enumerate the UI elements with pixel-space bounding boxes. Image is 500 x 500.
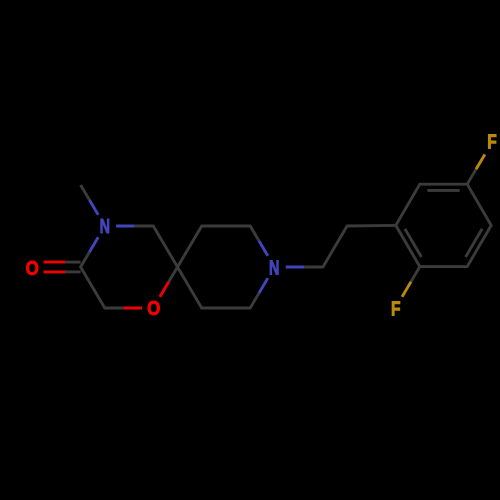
ring bond C5-spiro	[153, 226, 177, 267]
CH2-phenyl bond	[347, 224, 396, 228]
ring bond O1-C2	[105, 307, 142, 310]
svg-text:O: O	[26, 257, 39, 280]
C-F bond to para fluorine	[467, 154, 485, 184]
svg-text:N: N	[269, 256, 279, 279]
CH2-CH2 bond	[323, 226, 347, 267]
benzene bond C2-C3	[420, 265, 467, 268]
benzene bond C3-C4 (double)	[466, 225, 492, 266]
piperidine bond spiro-C	[178, 226, 202, 267]
svg-text:O: O	[147, 297, 160, 320]
svg-text:F: F	[487, 131, 497, 153]
piperidine top bond	[202, 225, 251, 228]
benzene bond C5-C6 (double)	[420, 184, 467, 190]
ring bond spiro-O1	[160, 267, 178, 297]
benzene bond C4-C5	[467, 184, 491, 225]
C-F bond to ortho fluorine	[402, 267, 420, 297]
svg-text:N: N	[100, 215, 110, 238]
carbonyl C=O double bond	[44, 262, 81, 272]
N-CH2 bond	[286, 266, 323, 269]
piperidine bond C-N	[250, 226, 268, 256]
N-methyl bond	[81, 185, 99, 215]
benzene bond C1-C2 (double)	[396, 225, 422, 266]
piperidine bond N-C	[250, 278, 268, 308]
ring bond N4-C5	[116, 225, 153, 228]
ring bond C2-C3	[81, 267, 105, 308]
carbon vertex joint dots	[79, 183, 493, 310]
piperidine bond C-spiro	[178, 267, 202, 308]
benzene bond C6-C1	[396, 184, 420, 225]
piperidine bottom bond	[202, 307, 251, 310]
amide C-N bond	[81, 237, 99, 267]
svg-text:F: F	[391, 297, 401, 319]
